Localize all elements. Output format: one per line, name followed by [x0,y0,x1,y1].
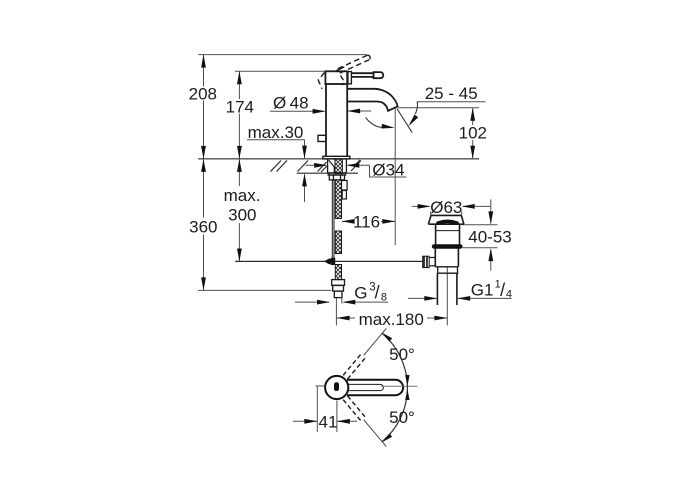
dashed handle positions [343,353,366,421]
svg-text:Ø63: Ø63 [430,198,462,217]
dim 360 shaft [203,159,205,218]
svg-text:/: / [375,283,380,303]
linkage rod to drain [235,260,423,262]
41 dimension [293,386,357,432]
mounting nut [328,173,345,180]
rod tee clamp [324,258,334,264]
svg-text:G: G [354,284,367,303]
arrows 50-degree arcs [381,331,392,341]
arrows dim G3/8 [317,300,330,305]
lever slot [349,384,384,390]
arrows dim max.300 [237,159,242,172]
arrows dim O63 [418,204,431,209]
spray adjust curved arrow [366,117,383,127]
thin extension lines [364,328,387,446]
black top band [438,221,457,223]
arrows dim G1 1/4 [424,296,437,301]
svg-text:/: / [500,280,505,300]
svg-text:25 - 45: 25 - 45 [425,84,478,103]
handle pivot edge [336,67,344,71]
svg-text:360: 360 [189,217,217,236]
svg-text:50°: 50° [389,408,415,427]
G1 1/4 tails [408,297,436,299]
lower flange [437,267,439,273]
svg-text:40-53: 40-53 [468,227,511,246]
svg-text:116: 116 [353,213,380,232]
top reference line (208) [198,54,366,56]
body below seal [434,249,436,267]
handle pin [348,72,352,84]
svg-text:300: 300 [228,206,256,225]
max.180 [337,317,355,319]
360 bottom reference line [198,289,332,291]
pop-up rod under counter [332,180,334,259]
svg-text:max.30: max.30 [248,123,304,142]
svg-text:4: 4 [506,288,512,300]
lever [351,73,373,77]
arrows dim max.30 [302,146,307,159]
knurled connector [423,256,430,267]
arrows dim O48 [313,109,326,114]
O48 leader [270,110,325,112]
svg-text:41: 41 [319,413,338,432]
body [325,84,327,156]
dim 116 [342,220,352,222]
body circle (top view) [325,376,348,399]
svg-text:174: 174 [226,97,254,116]
arrows dim 360 [201,159,206,172]
spout [347,89,397,111]
spout mouth extension line [394,108,396,245]
svg-text:max.: max. [224,186,261,205]
shank through counter [328,159,347,173]
svg-text:Ø34: Ø34 [372,160,404,179]
base flange [323,156,350,159]
svg-text:Ø 48: Ø 48 [273,93,309,112]
svg-text:102: 102 [459,124,487,143]
dashed raised handle [318,55,370,89]
40-53 shafts + refs [490,199,492,223]
arrows dim 116 [342,219,355,224]
arrows dim 102 [470,108,475,121]
svg-text:G1: G1 [471,281,494,300]
arrows dim max.180 [337,316,350,321]
50 degree arc [382,333,407,441]
G3/8 tails [295,301,329,303]
cap [431,214,461,216]
hatch marks [271,161,282,172]
dim 102 shaft [472,108,474,125]
centerline [381,385,418,387]
lever (top view) [347,380,403,395]
svg-text:208: 208 [189,85,217,104]
O34 leader [306,164,327,166]
arrows dim 208 [201,55,206,68]
counter top line [198,158,479,160]
pipe edge extension at G3/8 [341,298,343,304]
dim max300 shaft [238,159,240,186]
svg-text:8: 8 [381,291,387,303]
dim 208 shaft [203,55,205,87]
O63 tails + extension lines [412,205,430,207]
25-45 underline [417,101,485,103]
seal ring [432,244,463,249]
arrows dim O34 [314,163,327,168]
tailpipe [436,273,438,305]
cartridge stem dot [334,382,339,391]
arrows dim 41 [304,419,317,424]
pop-up knob [318,135,326,141]
dashed tilted cap [318,73,324,89]
dim 174 shaft [238,71,240,99]
max30 leader [247,139,304,141]
cap [325,71,347,84]
small blocks right of hose [342,181,348,200]
102 top ref [398,107,479,109]
svg-text:max.180: max.180 [359,310,424,329]
svg-text:50°: 50° [389,345,415,364]
25-45 leader curve [415,102,417,114]
reference line 174 [235,70,326,72]
G3/8 hose nut [332,280,345,298]
flex hose (hatched segments) [335,180,341,280]
threaded stud (hatched) [335,159,342,173]
arrows dim 174 [237,71,242,84]
neck [435,224,437,244]
arrows dim 40-53 [488,211,493,224]
water stream line [397,108,412,132]
